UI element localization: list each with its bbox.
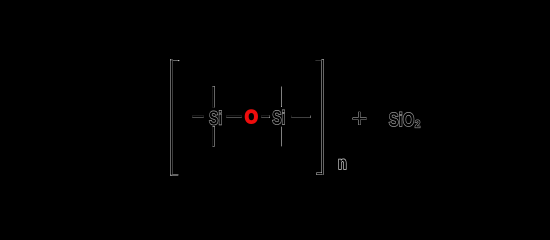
bond CH3-Si left horizontal (192, 116, 203, 118)
left bracket corner dots (170, 59, 179, 176)
right bracket (316, 59, 323, 174)
left bracket (171, 59, 179, 175)
bond CH3 bottom of right Si (vertical) (281, 127, 283, 146)
plus sign (353, 112, 367, 125)
svg-text:Si: Si (272, 108, 285, 129)
bond Si-CH3 right horizontal (291, 116, 310, 118)
bond CH3 top of left Si (vertical) (213, 86, 215, 107)
bond CH3 bottom of left Si (vertical) (213, 126, 215, 146)
svg-text:SiO: SiO (389, 110, 415, 131)
bond Si-O (226, 116, 241, 118)
svg-text:O: O (245, 106, 258, 127)
svg-text:2: 2 (415, 119, 420, 131)
bond O-Si (261, 116, 269, 118)
bond CH3 top of right Si (vertical) (281, 87, 283, 107)
svg-text:Si: Si (209, 108, 222, 129)
svg-text:n: n (338, 153, 347, 173)
